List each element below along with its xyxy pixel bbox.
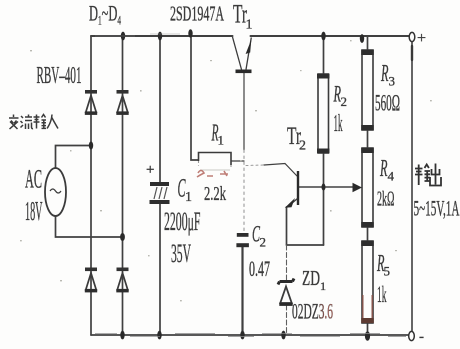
wire bottom rail texture — [95, 34, 406, 337]
svg-text:5~15V,1A: 5~15V,1A — [414, 196, 460, 221]
svg-text:1k: 1k — [334, 111, 343, 137]
svg-text:-: - — [419, 329, 424, 345]
potentiometer R4 — [353, 148, 374, 227]
wire bridge column right — [122, 36, 124, 335]
wire output positive — [411, 42, 413, 333]
wire C1 column — [159, 36, 161, 335]
svg-text:AC: AC — [25, 165, 42, 194]
svg-text:2SD1947A: 2SD1947A — [170, 2, 224, 26]
svg-text:0.47: 0.47 — [249, 256, 270, 281]
wire R1 feed from top rail — [191, 36, 198, 160]
wire bottom rail — [91, 334, 409, 336]
svg-text:2: 2 — [341, 94, 348, 109]
transistor Tr1 — [233, 37, 252, 71]
svg-text:2kΩ: 2kΩ — [377, 187, 395, 211]
wire R1 to base node — [231, 160, 244, 162]
capacitor C2 — [236, 233, 249, 247]
svg-text:2200μF: 2200μF — [164, 207, 201, 236]
svg-text:1: 1 — [185, 190, 192, 205]
wire R3 top lead — [367, 36, 369, 50]
diode D4 — [116, 268, 128, 291]
svg-text:ZD: ZD — [302, 266, 320, 290]
wire top rail left segment — [91, 35, 233, 37]
junction bottom rail at C1 column — [157, 331, 161, 340]
output terminal minus — [409, 329, 424, 345]
svg-text:R: R — [380, 61, 388, 87]
wire R5 bottom lead — [367, 323, 369, 335]
output terminal plus — [409, 30, 426, 47]
wire R4 to R5 — [367, 227, 369, 241]
junction bottom rail at ZD1 column — [281, 331, 285, 340]
wire Tr1 base vertical — [243, 73, 245, 150]
svg-text:2: 2 — [299, 139, 306, 154]
wire Tr2 emitter down — [286, 207, 288, 245]
junction top rail at C1 column — [158, 32, 162, 41]
wire Tr2 base to R4 wiper — [299, 186, 354, 188]
diode D3 — [85, 268, 97, 291]
svg-text:1: 1 — [218, 133, 225, 148]
node AC to bridge left — [89, 142, 93, 150]
wire Tr2 collector to base node — [246, 164, 264, 167]
node AC to bridge right — [120, 233, 125, 241]
svg-text:3: 3 — [389, 74, 396, 89]
svg-text:02DZ3.6: 02DZ3.6 — [292, 299, 333, 324]
capacitor C1 — [146, 162, 170, 204]
wire AC source bottom lead — [56, 216, 123, 237]
resistor R1 — [199, 153, 232, 171]
wire bridge column left — [90, 36, 92, 335]
transistor Tr2 — [285, 171, 298, 208]
diode D1 — [85, 90, 97, 113]
junction bottom rail at C2 column — [240, 331, 244, 340]
wire AC source top lead — [56, 146, 92, 169]
svg-text:4: 4 — [388, 169, 395, 184]
resistor R3 — [361, 50, 374, 130]
wire zener column — [286, 245, 288, 282]
svg-text:35V: 35V — [171, 239, 191, 268]
svg-text:2.2k: 2.2k — [204, 183, 226, 205]
wire C2 bottom lead — [241, 247, 243, 335]
wire emitter/zener node to R2 — [287, 244, 324, 246]
junction bottom rail at D4 column — [120, 331, 124, 340]
svg-text:1: 1 — [246, 18, 253, 33]
red annotation marks near R1 — [197, 171, 228, 178]
diode D2 — [116, 90, 128, 113]
svg-text:+: + — [146, 162, 154, 178]
svg-text:D1~D4: D1~D4 — [89, 1, 121, 28]
svg-text:+: + — [417, 30, 426, 47]
junction top rail at R2 — [321, 32, 325, 41]
wire R2 bottom lead — [323, 153, 325, 245]
svg-text:1: 1 — [320, 279, 326, 293]
label AC input chinese 交流输入 — [9, 115, 58, 130]
svg-text:5: 5 — [384, 264, 391, 279]
resistor R2 — [317, 74, 330, 153]
junction Tr2 base wire and R2 lead — [322, 183, 326, 190]
svg-text:2: 2 — [260, 235, 267, 250]
wire R3 to R4 — [367, 130, 369, 148]
svg-text:R: R — [379, 156, 387, 182]
wire R2 top lead — [323, 36, 325, 74]
junction bottom rail at R5 column — [365, 331, 370, 341]
wire top rail right segment — [251, 35, 410, 37]
junction top rail at R3 — [360, 34, 364, 43]
junction top rail at D2 column — [121, 32, 125, 41]
svg-text:RBV–401: RBV–401 — [37, 63, 82, 89]
junction top rail at R1 feed — [188, 29, 192, 37]
svg-text:18V: 18V — [25, 196, 43, 226]
AC source — [45, 168, 66, 216]
svg-text:560Ω: 560Ω — [375, 91, 400, 116]
resistor R5 — [361, 241, 374, 323]
svg-text:1k: 1k — [377, 282, 387, 307]
label output chinese 输出 — [415, 164, 441, 186]
scan speckle noise — [20, 40, 432, 301]
zener diode ZD1 — [278, 279, 294, 305]
